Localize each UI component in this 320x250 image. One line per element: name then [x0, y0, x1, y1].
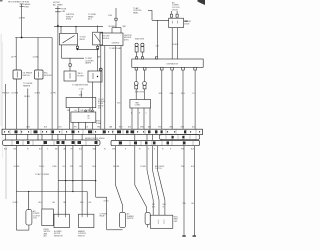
svg-text:14 BRN: 14 BRN: [19, 18, 26, 20]
svg-text:TO GAUGES FUSE: TO GAUGES FUSE: [72, 84, 89, 87]
svg-text:PNK BLK: PNK BLK: [2, 92, 10, 94]
svg-text:MODULE: MODULE: [44, 75, 52, 77]
svg-text:18 W: 18 W: [26, 126, 30, 128]
svg-text:TO A/C SYSTEM: TO A/C SYSTEM: [35, 173, 49, 176]
svg-text:TO HORN: TO HORN: [100, 213, 108, 215]
svg-text:(B+): (B+): [88, 19, 92, 21]
svg-text:HEAD: HEAD: [133, 11, 139, 14]
svg-text:WHT: WHT: [123, 26, 127, 28]
svg-text:PPL: PPL: [70, 166, 73, 168]
svg-text:B: B: [139, 112, 140, 114]
svg-text:18 P: 18 P: [79, 166, 82, 168]
svg-text:FUEL: FUEL: [174, 216, 178, 218]
svg-text:14 PPL: 14 PPL: [11, 57, 17, 59]
svg-text:BLK: BLK: [152, 207, 155, 209]
svg-text:18 BLK: 18 BLK: [35, 92, 41, 94]
svg-text:14B: 14B: [67, 110, 70, 112]
svg-text:WHT: WHT: [119, 126, 123, 128]
svg-text:CONN: CONN: [135, 105, 141, 107]
svg-text:PPL: PPL: [74, 126, 77, 128]
svg-text:DK GRN: DK GRN: [113, 166, 120, 168]
svg-text:14 DBL: 14 DBL: [33, 57, 39, 59]
svg-text:L-B: L-B: [74, 110, 76, 112]
svg-text:SWITCH: SWITCH: [44, 231, 51, 233]
svg-text:B: B: [125, 148, 126, 150]
svg-text:SWITCH: SWITCH: [127, 218, 134, 220]
svg-text:(RUN): (RUN): [66, 19, 71, 21]
svg-text:INJECTORS: INJECTORS: [135, 39, 144, 41]
svg-text:DIODE: DIODE: [184, 23, 189, 25]
svg-text:18B: 18B: [87, 110, 90, 112]
svg-text:HEATER: HEATER: [23, 85, 31, 88]
svg-text:SWITCH: SWITCH: [23, 75, 31, 77]
svg-text:16 L: 16 L: [63, 166, 66, 168]
svg-text:MODULE: MODULE: [102, 38, 110, 40]
svg-text:RESISTOR: RESISTOR: [54, 235, 63, 237]
svg-text:PPL: PPL: [71, 148, 74, 150]
svg-text:CLUTCH: CLUTCH: [155, 168, 162, 170]
svg-text:18 BLK: 18 BLK: [173, 44, 179, 46]
svg-text:B: B: [154, 148, 155, 150]
svg-text:SW B2: SW B2: [80, 39, 85, 41]
svg-text:LBL: LBL: [63, 148, 66, 150]
svg-text:20 BLK: 20 BLK: [24, 96, 31, 98]
svg-text:(EST): (EST): [124, 39, 129, 41]
svg-text:18 ORN: 18 ORN: [14, 166, 21, 168]
svg-text:SWITCH: SWITCH: [78, 235, 85, 237]
svg-text:LT B: LT B: [192, 93, 195, 95]
svg-text:20 PPL: 20 PPL: [51, 92, 57, 94]
svg-text:LAMPS: LAMPS: [85, 62, 92, 65]
svg-text:UNIT: UNIT: [174, 221, 178, 223]
svg-text:14B: 14B: [152, 204, 155, 206]
svg-text:COIL: COIL: [33, 218, 37, 220]
svg-text:14B: 14B: [52, 202, 55, 204]
svg-text:C500: C500: [108, 15, 112, 17]
svg-text:IGN MOD: IGN MOD: [112, 42, 120, 44]
svg-text:PRNDL: PRNDL: [44, 229, 50, 231]
svg-text:DISTRIBUTOR: DISTRIBUTOR: [167, 63, 179, 65]
svg-text:TO ESC: TO ESC: [98, 99, 105, 101]
svg-text:LBL: LBL: [89, 202, 92, 204]
svg-text:MODULE: MODULE: [98, 101, 105, 103]
svg-text:DIODE: DIODE: [172, 9, 178, 11]
svg-text:ENGINE CONTROL WIRING: ENGINE CONTROL WIRING: [85, 138, 105, 140]
svg-text:18B: 18B: [63, 202, 66, 204]
svg-text:DK GRN: DK GRN: [12, 92, 19, 94]
svg-text:LT GRN: LT GRN: [140, 166, 147, 168]
svg-text:FILTER: FILTER: [78, 75, 85, 77]
svg-text:C 100: C 100: [79, 89, 84, 91]
